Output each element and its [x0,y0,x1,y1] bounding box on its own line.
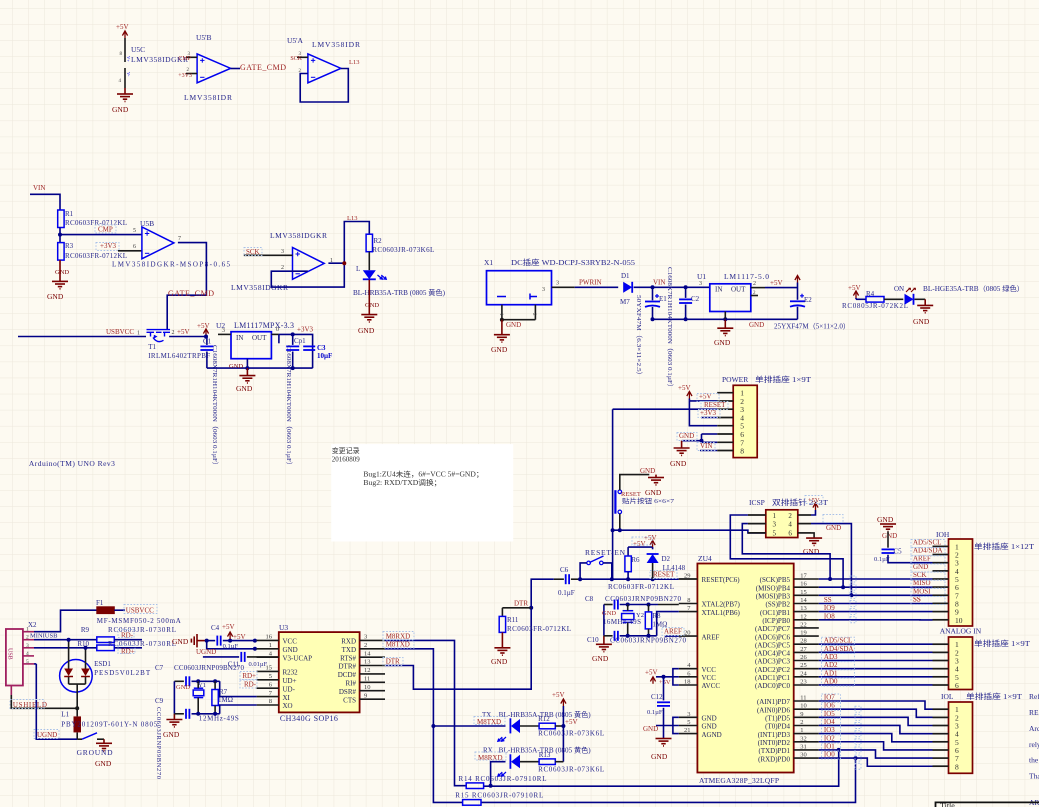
wire IO9 row to IOH pin9 [819,611,933,613]
svg-text:5: 5 [269,673,272,680]
svg-text:OUT: OUT [731,286,746,294]
svg-text:25YXF47M（5×11×2.0）: 25YXF47M（5×11×2.0） [774,323,850,331]
svg-text:GND: GND [236,384,253,393]
svg-text:GND: GND [592,654,609,663]
svg-text:1: 1 [269,642,272,649]
svg-text:DC插座 WD-DCPJ-S3RYB2-N-055: DC插座 WD-DCPJ-S3RYB2-N-055 [511,257,635,267]
resistor R13 [520,751,604,774]
resistor R6 [625,547,653,579]
svg-text:GND: GND [803,547,820,556]
svg-text:C2: C2 [691,295,700,303]
svg-text:3: 3 [773,520,777,528]
svg-text:20160809: 20160809 [332,456,361,464]
svg-text:GND: GND [283,646,298,654]
power +5V at U2 input [197,322,210,339]
svg-text:SCK: SCK [290,56,302,62]
wire +5V from U1 out [765,276,800,300]
connector X2 MINIUSB [6,621,58,695]
svg-text:3: 3 [556,281,559,287]
svg-text:M8RXD: M8RXD [478,754,503,762]
svg-text:R6: R6 [631,556,640,564]
ground below R11 [491,632,510,666]
svg-text:(INT0)PD2: (INT0)PD2 [758,739,791,747]
svg-text:R13: R13 [539,751,551,759]
svg-text:+3V3: +3V3 [100,242,117,250]
svg-text:GND: GND [702,723,717,731]
svg-text:GATE_CMD: GATE_CMD [168,289,214,298]
svg-text:2: 2 [364,642,367,649]
wire +3V3 into U5B [100,242,142,251]
wire AREF stub [664,628,682,637]
svg-text:3: 3 [364,634,367,641]
capacitor C4 [205,624,257,650]
svg-text:RESET(PC6): RESET(PC6) [702,576,741,584]
svg-text:CMP: CMP [178,56,191,62]
svg-text:GROUND: GROUND [77,748,114,757]
wire IO3 staircase to IOL pin 5 [819,734,933,742]
svg-text:UD+: UD+ [283,677,297,685]
note change-record box [331,444,513,541]
connector ANALOG IN header 1x9T [933,627,1031,690]
diode D2 LL4148 [647,554,686,579]
svg-text:8: 8 [740,447,744,456]
svg-text:IRLML6402TRPBF: IRLML6402TRPBF [148,352,210,360]
svg-text:(TXD)PD1: (TXD)PD1 [759,747,791,755]
compile marker dotted boxes [10,225,945,769]
svg-text:C5: C5 [894,548,903,556]
wire MOSI row [819,593,933,597]
svg-text:U3: U3 [279,623,288,632]
wire X1 ground [500,318,536,329]
svg-text:L1: L1 [61,711,69,719]
svg-text:RD-: RD- [244,681,257,689]
wire U2 ground rail [207,359,313,370]
svg-text:D2: D2 [662,555,671,563]
svg-text:双排插针 2×3T: 双排插针 2×3T [772,497,828,507]
svg-text:R232: R232 [283,669,299,677]
svg-text:(ADC0)PC0: (ADC0)PC0 [755,682,791,690]
svg-text:11: 11 [364,676,370,683]
wire IO4 staircase to IOL pin 4 [819,725,933,733]
switch GROUND [77,733,114,757]
wire IO5 staircase to IOL pin 3 [819,717,933,725]
resistor R9 [34,626,176,643]
svg-text:RC0603FR-0712KL: RC0603FR-0712KL [65,219,127,227]
svg-text:rely: rely [1029,740,1039,749]
svg-text:(MISO)PB4: (MISO)PB4 [756,584,791,592]
svg-text:8: 8 [269,698,272,705]
svg-text:9: 9 [800,711,803,718]
svg-text:GATE_CMD: GATE_CMD [240,63,286,72]
ground below LED L [358,280,379,335]
svg-text:GND: GND [602,610,616,617]
wire PWRIN net [575,279,619,288]
svg-text:L13: L13 [347,215,357,222]
svg-text:GND: GND [112,105,129,114]
svg-text:+5V: +5V [848,284,861,292]
svg-text:RESET: RESET [704,401,726,409]
svg-text:ATMEGA328P_32LQFP: ATMEGA328P_32LQFP [699,776,779,785]
resistor R3 [58,242,127,260]
svg-text:(ADC2)PC2: (ADC2)PC2 [755,666,791,674]
LED RX yellow [478,746,591,788]
wire IO2 staircase to IOL pin 6 [819,742,933,750]
svg-text:(INT1)PD3: (INT1)PD3 [758,731,791,739]
svg-text:GND: GND [651,752,668,761]
svg-text:3: 3 [26,643,29,649]
wire RESET vertical from POWER to reset circuit [611,409,615,579]
svg-text:R2: R2 [374,237,383,245]
IC U3 CH340G SOP16 [279,623,360,723]
svg-text:C1608X7R1H104KT000N（0603 0.1µF: C1608X7R1H104KT000N（0603 0.1µF） [211,345,219,469]
svg-text:GND: GND [702,715,717,723]
svg-text:RTS#: RTS# [340,654,356,662]
wire VIN label at POWER pin 8 [700,442,717,451]
wire IO0 tap to R15 [481,756,858,802]
svg-text:SCK: SCK [246,248,260,256]
resistor R15 [455,792,543,806]
ground below U1 [714,319,764,347]
svg-text:AVCC: AVCC [702,682,721,690]
wire CMP to U5B [60,226,142,235]
crystal circuit: GND rail [592,605,616,664]
svg-text:GND: GND [826,524,841,532]
svg-text:C7: C7 [155,664,164,672]
capacitor C2 [666,267,700,391]
wire ICSP MISO [730,515,843,587]
svg-text:31: 31 [800,743,807,750]
svg-text:T1: T1 [148,343,156,351]
svg-text:+5V: +5V [116,23,129,31]
svg-text:(AIN1)PD7: (AIN1)PD7 [757,698,791,706]
svg-text:+5V: +5V [197,322,210,330]
LED L yellow [353,252,446,297]
svg-text:R10: R10 [77,640,89,648]
resistor R14 [459,775,547,789]
svg-text:16MHz-49S: 16MHz-49S [603,618,641,626]
svg-text:3: 3 [281,249,284,255]
wire XTAL1 to pin 7 [657,612,679,636]
resistor R12 [520,715,604,738]
svg-text:AGND: AGND [702,731,722,739]
svg-text:+3V3: +3V3 [700,409,717,417]
svg-text:+5V: +5V [222,623,235,631]
button RESET 6x6x7 [615,475,674,531]
power +5V at AVCC [650,675,665,684]
svg-text:30: 30 [800,752,807,759]
svg-text:(T0)PD4: (T0)PD4 [765,723,790,731]
svg-text:U5'B: U5'B [196,33,212,42]
wire M8RXD from CH340 [385,640,466,785]
wire power input ground rail [651,317,728,321]
capacitor C3 10uF [303,344,332,360]
svg-text:RD-: RD- [121,632,134,640]
wire IO7 staircase to IOL pin 1 [819,701,933,709]
ground at POWER header [670,441,690,468]
regulator U1 LM1117-5.0 [697,272,769,319]
inductor L1 ferrite bead [61,708,158,739]
svg-text:13: 13 [800,605,807,612]
wire VIN net at D1 cathode [634,279,710,290]
svg-text:(SS)PB2: (SS)PB2 [765,601,790,609]
svg-text:the: the [1029,756,1039,765]
svg-text:RXD: RXD [341,638,356,646]
svg-text:+5V: +5V [678,384,691,392]
svg-text:RC0805JR-072K2L: RC0805JR-072K2L [842,302,908,310]
IC ZU4 ATMEGA328P_32LQFP [697,554,793,785]
svg-text:UD-: UD- [283,685,296,693]
svg-text:F1: F1 [96,599,104,607]
svg-text:GND: GND [95,759,112,768]
ZU4 left pins [679,573,741,739]
svg-text:VCC: VCC [702,666,717,674]
wire IO8 row to IOH pin10 [819,619,933,621]
capacitor C6 [554,566,580,597]
svg-text:8: 8 [687,597,690,604]
ground sideways at C4 [172,634,207,647]
svg-text:C1608X7R1H104KT000N（0603 0.1µF: C1608X7R1H104KT000N（0603 0.1µF） [285,345,293,469]
crystal Y1 12MHz [193,681,239,722]
svg-text:OUT: OUT [252,334,267,342]
svg-text:CC0603JRNP09BN270: CC0603JRNP09BN270 [610,637,687,645]
svg-text:+5V: +5V [233,633,246,641]
fuse F1 [34,599,181,632]
wire XO [220,705,257,714]
svg-text:XO: XO [283,702,293,710]
crystal circuit CH340: left rail + grounds [163,681,190,739]
svg-text:VIN: VIN [33,184,45,192]
svg-text:28: 28 [800,638,807,645]
svg-text:RD+: RD+ [242,672,256,680]
svg-text:LMV358IDGKR: LMV358IDGKR [270,231,327,240]
ground after ON LED [913,299,933,326]
svg-text:19: 19 [800,630,807,637]
crystal circuit CH340: C7 [155,664,245,686]
text right-edge fragments [1029,692,1039,807]
ground above C5 [877,515,897,540]
svg-text:RESET-EN: RESET-EN [585,548,626,557]
svg-text:GND: GND [714,338,731,347]
svg-text:LMV358IDGKR-MSOP8-0.65: LMV358IDGKR-MSOP8-0.65 [112,261,231,269]
svg-text:CC0603JRNP09BN270: CC0603JRNP09BN270 [155,707,162,779]
svg-text:DTR#: DTR# [339,663,357,671]
svg-text:LMV358IDR: LMV358IDR [184,93,232,102]
connector ICSP 2x3 header [748,497,829,538]
svg-text:+5V: +5V [808,497,820,504]
op-amp U5'A [287,36,360,83]
svg-text:C9: C9 [155,697,164,705]
svg-text:XI: XI [283,694,291,702]
svg-text:GND: GND [882,532,897,540]
ground at GROUND switch [95,739,112,768]
svg-text:5: 5 [687,719,690,726]
svg-text:1MΩ: 1MΩ [652,621,667,629]
svg-text:10: 10 [800,703,807,710]
svg-text:GND: GND [749,321,764,329]
svg-text:1: 1 [800,727,803,734]
power +5V at R4 [848,284,861,299]
svg-text:14: 14 [364,650,371,657]
resistor R7 [212,681,233,714]
wire AD2 row to ANALOG IN pin 4 [819,668,933,670]
svg-text:5: 5 [26,659,29,665]
svg-text:+5V: +5V [552,691,565,699]
svg-text:+3V3: +3V3 [297,326,314,334]
svg-text:+5V: +5V [644,534,657,542]
ground below U2 [236,368,255,393]
svg-text:RI#: RI# [346,680,357,688]
svg-text:1: 1 [773,512,777,520]
svg-text:GND: GND [55,269,69,276]
power +5V at R6/D2 [633,534,657,549]
svg-text:3: 3 [687,711,690,718]
power +5V at CH340 VCC [222,623,246,641]
svg-text:R3: R3 [65,242,74,250]
svg-text:CC0603JRNP09BN270: CC0603JRNP09BN270 [174,664,245,672]
svg-text:RC0603JR-073K6L: RC0603JR-073K6L [538,730,604,738]
svg-text:贴片按钮 6×6×7: 贴片按钮 6×6×7 [622,496,675,505]
svg-text:R11: R11 [507,616,519,624]
transistor T1 IRLML6402TRPBF p-mosfet [147,328,211,360]
svg-text:1: 1 [26,627,29,633]
svg-text:(ADC5)PC5: (ADC5)PC5 [755,641,791,649]
svg-text:32: 32 [800,735,807,742]
svg-text:3: 3 [222,328,225,334]
svg-text:PBY201209T-601Y-N 0805: PBY201209T-601Y-N 0805 [61,721,158,729]
svg-text:USHIELD: USHIELD [13,701,47,709]
svg-text:Bug1:ZU4未连，6#=VCC 5#=GND；: Bug1:ZU4未连，6#=VCC 5#=GND； [363,470,483,479]
svg-text:C6: C6 [560,566,569,574]
op-amp U5B comparator [112,219,231,269]
svg-text:PESD5V0L2BT: PESD5V0L2BT [94,669,151,677]
svg-text:Ref: Ref [1029,692,1039,701]
svg-text:单排插座 1×12T: 单排插座 1×12T [974,541,1034,551]
svg-text:18: 18 [684,679,691,686]
capacitor C12 [647,677,670,739]
svg-text:(ADC1)PC1: (ADC1)PC1 [755,674,791,682]
svg-text:RC0603FR-0712KL: RC0603FR-0712KL [65,252,127,260]
svg-text:ICSP: ICSP [749,498,765,507]
svg-text:Bug2: RXD/TXD调换；: Bug2: RXD/TXD调换； [363,478,441,487]
wire IO1 staircase to IOL pin 7 [819,750,933,758]
ground at ICSP pin6 [803,524,841,556]
svg-text:Cp1: Cp1 [294,337,306,345]
svg-text:R15 RC0603JR-07910RL: R15 RC0603JR-07910RL [455,792,543,800]
svg-text:GND: GND [365,302,379,309]
capacitor E2 electrolytic [725,294,850,331]
svg-text:C12: C12 [651,693,663,701]
ground below C12 [651,739,672,762]
wire AD0 row to ANALOG IN pin 6 [819,684,933,686]
svg-text:6: 6 [955,681,959,690]
svg-text:5: 5 [773,530,777,538]
svg-text:17: 17 [800,573,807,580]
ESD protection ESD1 PESD5V0L2BT [60,638,151,709]
svg-text:XTAL1(PB6): XTAL1(PB6) [702,609,741,617]
svg-text:7: 7 [178,236,181,242]
svg-text:2: 2 [800,719,803,726]
wire SS row [819,596,933,604]
svg-text:M7: M7 [620,298,630,306]
wire AD4/SDA row to ANALOG IN pin 2 [819,651,933,653]
svg-text:8: 8 [955,762,959,771]
svg-text:2: 2 [281,265,284,271]
wire GATE_CMD from U5B output to T1 gate [167,243,214,329]
svg-text:DTR: DTR [386,657,400,665]
svg-text:GND: GND [645,488,662,497]
svg-text:单排插座 1×9T: 单排插座 1×9T [974,638,1030,648]
capacitor Cp1 [285,334,306,469]
svg-text:(RXD)PD0: (RXD)PD0 [758,755,790,763]
svg-text:L: L [356,265,360,273]
svg-text:XTAL2(PB7): XTAL2(PB7) [702,601,741,609]
svg-text:(SCK)PB5: (SCK)PB5 [760,576,791,584]
svg-text:GND: GND [913,317,930,326]
svg-text:24: 24 [800,670,807,677]
wire AD5/SCL row to ANALOG IN pin 1 [819,643,933,645]
svg-text:USB: USB [7,648,13,660]
crystal circuit: C10 [587,631,687,645]
svg-text:USBVCC: USBVCC [106,328,134,336]
wire +5V to POWER pins 2 and 5 [689,393,717,426]
IOH red net labels [913,538,943,603]
resistor R10 [34,640,176,656]
svg-text:GND: GND [506,321,521,329]
svg-text:Tha: Tha [1029,772,1039,781]
svg-text:12: 12 [364,667,371,674]
wire SCK row ZU4 to IOH [819,577,933,581]
LED ON green [884,284,1024,305]
op-amp U5C spare section power pins [116,23,188,88]
svg-text:C10: C10 [587,636,599,644]
svg-text:BL-HRB35A-TRB (0805 黄色): BL-HRB35A-TRB (0805 黄色) [353,288,446,297]
node CMP junction [58,228,62,243]
svg-text:0: 0 [276,327,279,333]
svg-text:16: 16 [266,634,273,641]
svg-text:Y1: Y1 [198,682,206,689]
svg-text:MINIUSB: MINIUSB [30,633,58,640]
svg-text:RE: RE [1029,708,1039,717]
svg-text:IOL: IOL [941,692,954,701]
svg-text:单排插座 1×9T: 单排插座 1×9T [755,374,811,384]
wire CH340 GND under-route [207,641,257,651]
svg-text:25: 25 [800,662,807,669]
ZU4 right pins [755,573,853,764]
wire U2 output +3V3 [271,326,313,369]
svg-text:21: 21 [684,727,691,734]
wire USHIELD [11,695,79,710]
svg-text:ZU4: ZU4 [698,554,712,563]
wire IO0 staircase to IOL pin 8 [819,758,933,766]
power +5V at POWER header [678,384,692,401]
wire reset button to ICSP pin5 [613,528,766,533]
wire IO1 tap to R14 [484,748,841,786]
svg-text:C1: C1 [203,338,212,346]
svg-text:GND: GND [491,345,508,354]
svg-text:5: 5 [133,228,136,234]
svg-text:26: 26 [800,654,807,661]
switch RESET-EN [578,548,625,581]
svg-text:VIN: VIN [700,442,712,450]
wire USBVCC into T1 [18,328,146,337]
wire U5'A feedback loop [300,69,348,103]
svg-text:9: 9 [364,692,367,699]
svg-text:LM1117-5.0: LM1117-5.0 [724,272,769,281]
svg-text:GND: GND [640,467,655,475]
svg-text:GND: GND [163,730,180,739]
svg-text:RD+: RD+ [121,648,135,656]
wire GND to POWER pins 6 and 7 [679,432,717,443]
